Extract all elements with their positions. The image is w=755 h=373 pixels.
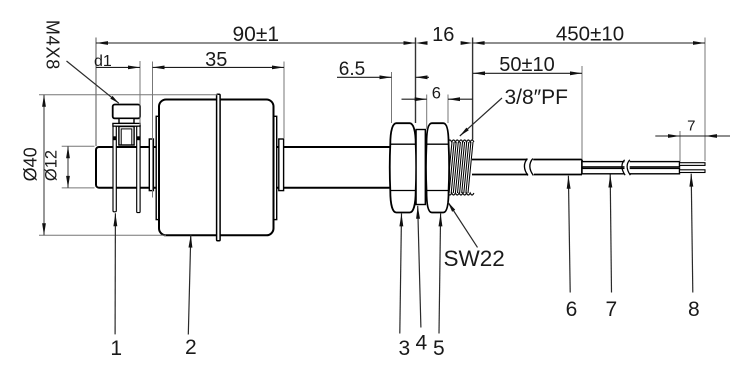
svg-text:Ø12: Ø12 bbox=[43, 150, 61, 181]
dimension dia 12 bbox=[67, 146, 69, 188]
svg-text:3: 3 bbox=[398, 337, 410, 360]
extension line 7 left bbox=[679, 131, 681, 161]
clip inner housing bbox=[119, 127, 134, 146]
extension line dia40 top bbox=[39, 94, 218, 96]
dimension 7 bbox=[655, 135, 705, 137]
screw cap M4X8 bbox=[113, 105, 140, 119]
extension line dia12 top bbox=[62, 145, 95, 147]
svg-text:6.5: 6.5 bbox=[339, 59, 365, 80]
float center seam tab bbox=[217, 94, 221, 241]
clip pivot pins bbox=[113, 136, 117, 140]
leader item 1 bbox=[114, 213, 116, 334]
leader item 2 bbox=[188, 235, 191, 335]
extension line stem left end bbox=[95, 38, 97, 147]
svg-text:Ø40: Ø40 bbox=[21, 147, 41, 181]
dimension d1 bbox=[96, 66, 140, 68]
hex nut (item 3) bbox=[390, 123, 417, 212]
leader item 5 bbox=[439, 213, 441, 333]
svg-text:5: 5 bbox=[433, 337, 445, 360]
svg-text:450±10: 450±10 bbox=[556, 23, 624, 46]
svg-text:7: 7 bbox=[605, 298, 617, 321]
float right end band bbox=[273, 116, 277, 219]
dimension 6.5 bbox=[337, 76, 392, 78]
stem tube bbox=[96, 147, 392, 188]
svg-text:50±10: 50±10 bbox=[499, 54, 554, 76]
extension line 6.5 left bbox=[391, 72, 393, 123]
leader M4X8 bbox=[67, 61, 119, 103]
svg-text:d1: d1 bbox=[94, 53, 112, 70]
right bushing on stem bbox=[279, 139, 284, 191]
svg-text:16: 16 bbox=[432, 24, 454, 46]
svg-text:4: 4 bbox=[415, 332, 427, 355]
svg-text:SW22: SW22 bbox=[444, 246, 505, 271]
leader item 8 bbox=[691, 174, 693, 293]
svg-text:6: 6 bbox=[432, 84, 441, 102]
svg-text:2: 2 bbox=[185, 336, 197, 359]
leader SW22 bbox=[448, 202, 478, 247]
extension line float left bbox=[152, 62, 154, 198]
svg-text:6: 6 bbox=[566, 298, 578, 321]
extension line nut1 left bbox=[415, 38, 417, 124]
extension line thread end bbox=[472, 38, 474, 140]
dimension dia 40 bbox=[43, 95, 45, 236]
leader item 3 bbox=[400, 213, 402, 333]
extension line wire end bbox=[704, 38, 706, 162]
leader item 7 bbox=[610, 175, 611, 293]
bare wire ends bbox=[680, 163, 706, 166]
extension line 6 right bbox=[447, 95, 449, 124]
cable sheath bbox=[472, 160, 582, 175]
screw neck bbox=[119, 118, 134, 123]
extension line dia12 bottom bbox=[62, 187, 95, 189]
svg-text:1: 1 bbox=[110, 337, 122, 360]
threaded section 3/8 PF bbox=[447, 142, 452, 193]
wire pair insulated bbox=[582, 162, 680, 167]
extension line clip right leg bbox=[139, 61, 141, 125]
wire break symbol bbox=[625, 160, 630, 175]
dimension 35 bbox=[153, 66, 285, 68]
svg-text:90±1: 90±1 bbox=[233, 23, 280, 46]
leader 3/8 PF bbox=[460, 98, 502, 136]
washer spacer (item 4) bbox=[416, 130, 425, 205]
leader item 4 bbox=[418, 206, 421, 328]
float body (item 2) bbox=[159, 100, 274, 236]
svg-text:M4X8: M4X8 bbox=[43, 20, 63, 70]
svg-text:3/8″PF: 3/8″PF bbox=[505, 86, 568, 109]
clip right leg bbox=[137, 126, 140, 212]
dimension 6 bbox=[402, 98, 427, 100]
left bushing on stem bbox=[149, 139, 153, 191]
dimension 50±10 bbox=[473, 72, 582, 74]
svg-text:8: 8 bbox=[688, 298, 700, 321]
hex nut SW22 (item 5) bbox=[426, 123, 449, 212]
extension line 50 right bbox=[581, 66, 583, 159]
float left end band bbox=[156, 116, 161, 219]
cable break symbol bbox=[527, 158, 533, 161]
dimension 16 bbox=[416, 41, 428, 45]
clip top bar bbox=[113, 123, 140, 126]
leader item 6 bbox=[568, 176, 570, 293]
svg-text:7: 7 bbox=[687, 118, 695, 135]
dimension 450±10 bbox=[473, 42, 705, 44]
clip left leg (item 1) bbox=[113, 126, 116, 212]
extension line 6 left bbox=[426, 95, 428, 130]
svg-text:35: 35 bbox=[205, 49, 227, 71]
dimension 90±1 bbox=[96, 42, 416, 44]
extension line dia40 bottom bbox=[39, 234, 166, 236]
extension line float right bbox=[283, 62, 285, 139]
